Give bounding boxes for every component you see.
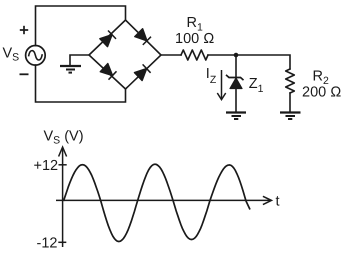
- wire: [36, 6, 126, 46]
- waveform axes: [56, 147, 272, 247]
- svg-text:VS: VS: [3, 46, 20, 64]
- zener diode Z1: [226, 75, 244, 89]
- diode D4 lower-right: [135, 69, 147, 81]
- svg-text:-12: -12: [37, 236, 58, 252]
- svg-text:Z1: Z1: [249, 76, 264, 95]
- wire R1 to node: [208, 54, 236, 56]
- wire node to R2 corner: [236, 55, 290, 69]
- diode D3 lower-left: [100, 64, 112, 76]
- wire R1 left: [161, 54, 181, 56]
- sine waveform of VS: [64, 164, 251, 241]
- ground (bridge): [60, 66, 81, 73]
- wire R2 to ground: [289, 93, 291, 113]
- diode D1 upper-left: [100, 35, 112, 47]
- resistor R2: [286, 69, 295, 93]
- diode D2 upper-right: [135, 29, 147, 41]
- wire: [36, 65, 126, 102]
- tick -12: [58, 241, 66, 243]
- plus sign of source: [20, 26, 28, 34]
- node junction dot: [234, 53, 239, 58]
- wire zener top: [235, 55, 237, 78]
- wire zener bottom: [235, 89, 237, 113]
- minus sign of source: [20, 73, 29, 75]
- AC source VS: [26, 46, 46, 66]
- y axis: [62, 149, 64, 247]
- Iz current arrow: [217, 70, 225, 100]
- ground (R2): [280, 113, 301, 120]
- wire bridge sides: [89, 20, 161, 89]
- tick +12: [59, 164, 67, 166]
- resistor R1: [181, 50, 208, 60]
- svg-text:200 Ω: 200 Ω: [302, 84, 341, 100]
- x axis: [56, 199, 271, 201]
- wire ground stub: [70, 55, 89, 66]
- svg-text:t: t: [276, 194, 280, 210]
- svg-text:+12: +12: [34, 158, 59, 174]
- svg-text:VS (V): VS (V): [44, 128, 84, 146]
- svg-text:100 Ω: 100 Ω: [175, 31, 214, 47]
- ground (zener): [226, 113, 246, 120]
- svg-text:IZ: IZ: [206, 66, 217, 86]
